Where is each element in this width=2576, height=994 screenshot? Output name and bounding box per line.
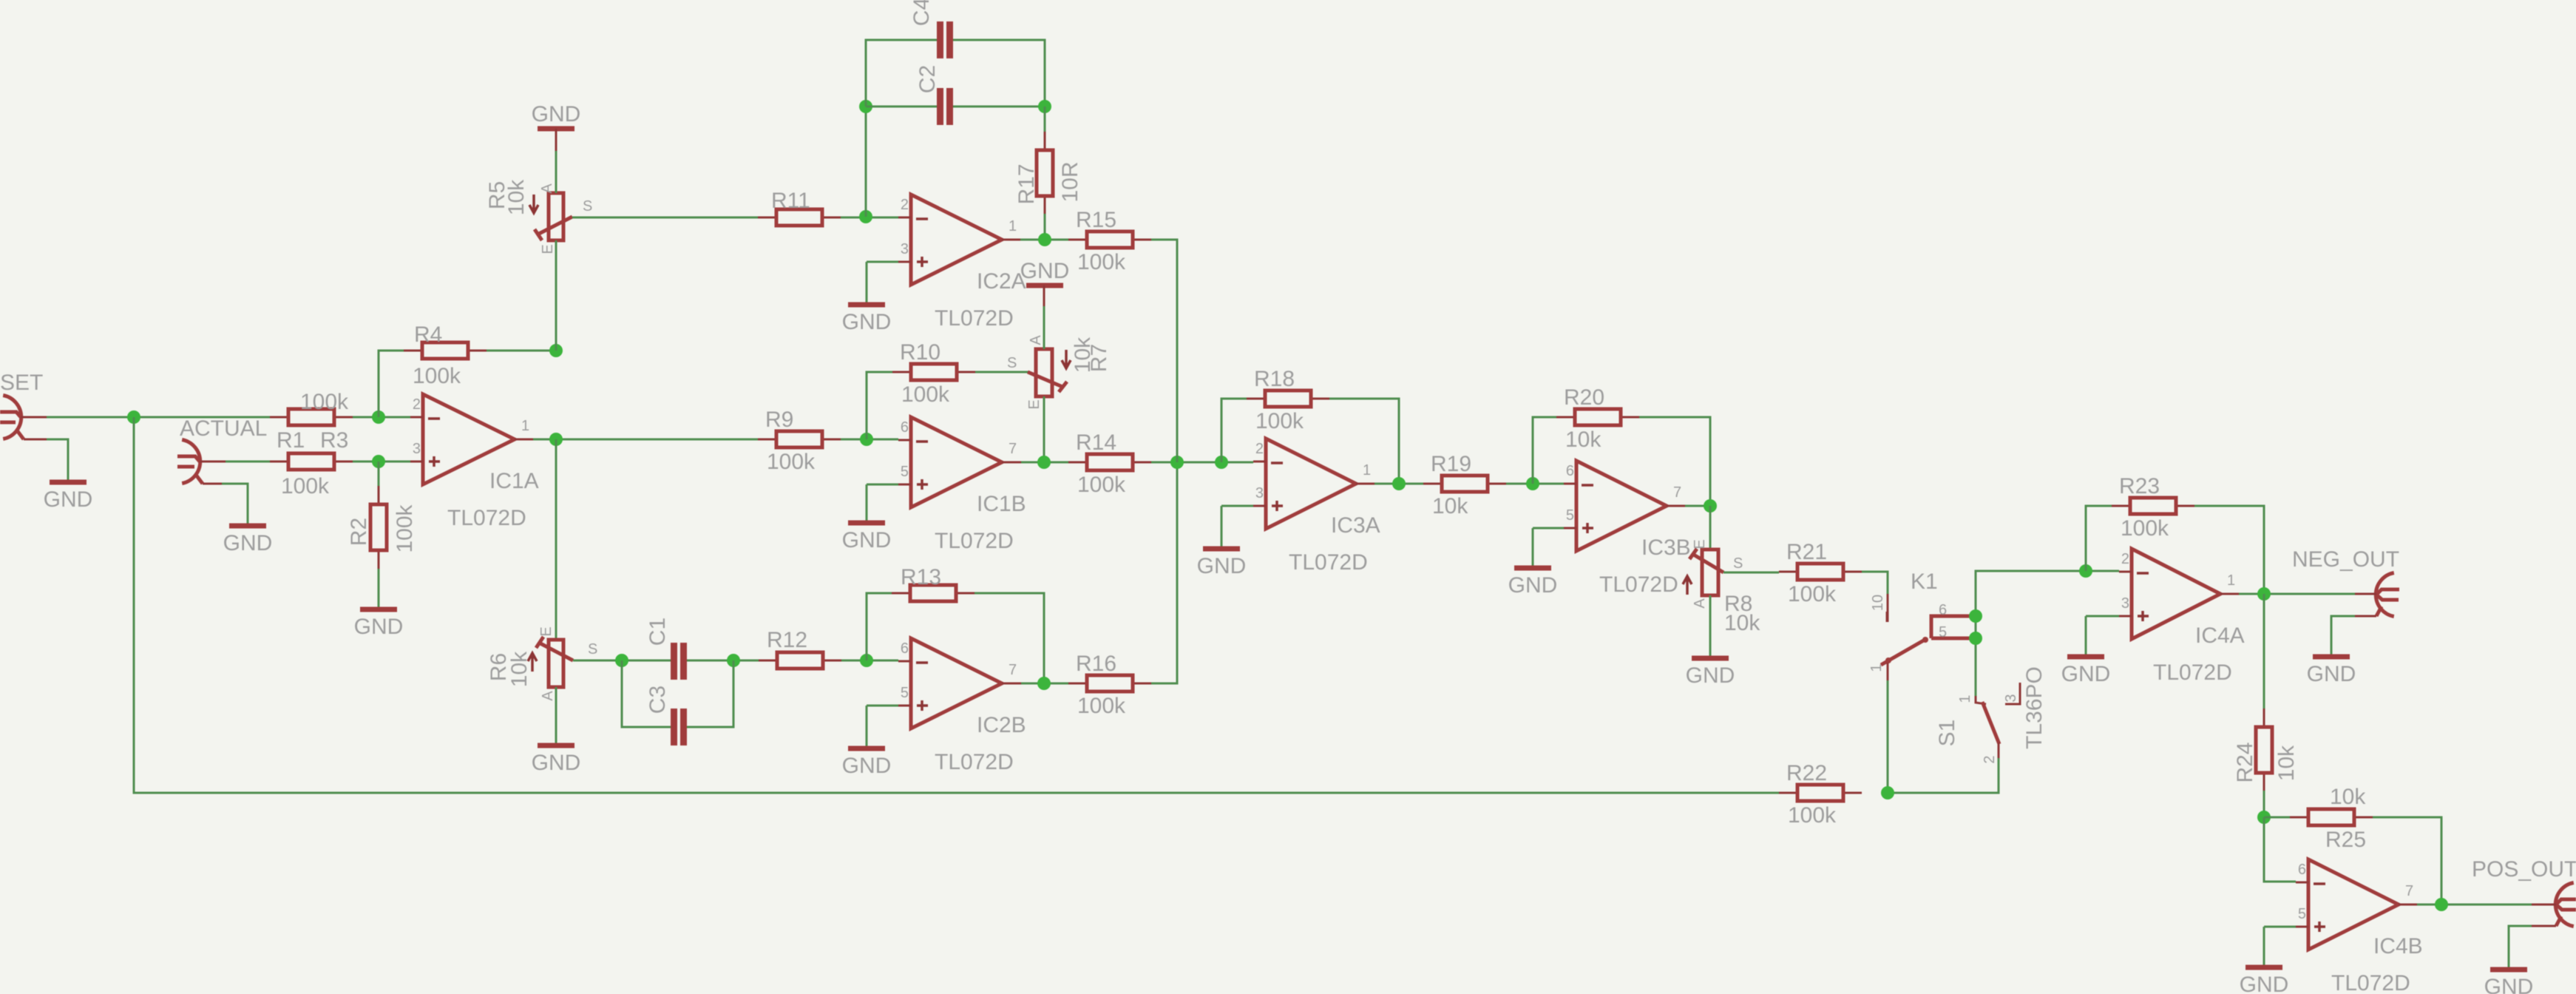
potentiometer R6 10k bbox=[487, 626, 597, 700]
junction C1/C3 right node bbox=[727, 654, 740, 667]
svg-text:100k: 100k bbox=[393, 504, 417, 552]
wire R6 wiper to C1 bbox=[573, 660, 671, 662]
resistor R10 bbox=[892, 340, 975, 407]
wire ACTUAL shield to ground bbox=[222, 484, 248, 524]
wire POS_OUT shield to ground bbox=[2509, 926, 2532, 968]
wire C2 left bbox=[866, 106, 937, 108]
svg-text:C1: C1 bbox=[645, 618, 670, 646]
svg-text:10k: 10k bbox=[507, 651, 532, 687]
svg-text:R4: R4 bbox=[414, 322, 442, 347]
svg-text:100k: 100k bbox=[1788, 803, 1837, 828]
wire R4 right to output column bbox=[487, 350, 556, 352]
wire R23 left down to pin2 node bbox=[2086, 506, 2112, 571]
wire R21 to relay pin10 bbox=[1862, 572, 1888, 594]
svg-text:A: A bbox=[540, 691, 556, 701]
svg-text:GND: GND bbox=[532, 751, 581, 775]
svg-text:R12: R12 bbox=[767, 628, 807, 652]
ground GND under NEG_OUT bbox=[2307, 657, 2356, 686]
wire R6 A to ground bbox=[555, 687, 557, 744]
svg-text:10k: 10k bbox=[504, 179, 529, 215]
junction SET net branch bbox=[127, 410, 140, 424]
potentiometer R7 10k bbox=[1007, 335, 1111, 410]
svg-text:IC1B: IC1B bbox=[977, 492, 1026, 516]
junction IC1B output node bbox=[1037, 456, 1051, 469]
svg-text:NEG_OUT: NEG_OUT bbox=[2292, 547, 2399, 572]
resistor R21 bbox=[1779, 540, 1862, 606]
wire R20 left down to pin6 node bbox=[1533, 417, 1556, 484]
svg-text:R22: R22 bbox=[1786, 761, 1827, 785]
svg-text:TL072D: TL072D bbox=[1289, 550, 1368, 575]
svg-text:10k: 10k bbox=[2330, 785, 2366, 809]
wire node to R25 bbox=[2264, 816, 2290, 819]
svg-text:GND: GND bbox=[842, 528, 892, 552]
svg-text:GND: GND bbox=[44, 487, 93, 512]
wire R13 left down to pin6 node bbox=[867, 593, 892, 660]
svg-text:K1: K1 bbox=[1911, 569, 1938, 594]
wire C4 to right column bbox=[953, 40, 1045, 106]
ground GND under ACTUAL bbox=[223, 526, 273, 555]
svg-text:A: A bbox=[539, 183, 555, 194]
capacitor C1 bbox=[645, 618, 687, 680]
svg-text:3: 3 bbox=[2003, 694, 2019, 702]
svg-text:100k: 100k bbox=[767, 450, 816, 474]
wire R20 right down to IC3B output bbox=[1639, 417, 1710, 506]
svg-text:2: 2 bbox=[901, 197, 909, 213]
svg-text:TL072D: TL072D bbox=[2153, 660, 2232, 685]
wire GND to R5 A bbox=[555, 151, 557, 193]
wire IC3A pin3 ground drop bbox=[1221, 506, 1223, 547]
svg-text:100k: 100k bbox=[1255, 409, 1304, 433]
svg-text:10: 10 bbox=[1870, 595, 1886, 611]
svg-text:1: 1 bbox=[521, 418, 529, 434]
svg-text:100k: 100k bbox=[1077, 694, 1126, 718]
svg-text:3: 3 bbox=[1255, 485, 1264, 501]
svg-text:TL36PO: TL36PO bbox=[2022, 666, 2047, 749]
svg-text:100k: 100k bbox=[901, 382, 950, 407]
junction IC2A output node bbox=[1038, 233, 1051, 246]
wire S1 pin2 down to R22 node bbox=[1888, 758, 1999, 793]
svg-text:R3: R3 bbox=[320, 428, 348, 453]
wire node down to IC4B pin6 bbox=[2264, 817, 2296, 882]
wire IC4B out to POS_OUT bbox=[2417, 904, 2532, 906]
svg-text:A: A bbox=[1692, 598, 1708, 609]
svg-text:E: E bbox=[1692, 539, 1708, 549]
junction C2 left node bbox=[859, 100, 872, 113]
svg-text:6: 6 bbox=[2298, 862, 2306, 878]
wire IC4A pin3 to ground bbox=[2086, 615, 2119, 618]
svg-text:A: A bbox=[1028, 335, 1044, 345]
resistor R3 bbox=[270, 409, 353, 453]
svg-text:GND: GND bbox=[1020, 259, 1070, 283]
resistor R17 bbox=[1014, 132, 1082, 214]
svg-text:7: 7 bbox=[1009, 441, 1017, 457]
svg-text:5: 5 bbox=[1566, 507, 1574, 524]
op-amp IC1B bbox=[898, 417, 1026, 553]
svg-text:IC4B: IC4B bbox=[2373, 934, 2423, 958]
wire IC2B pin5 ground drop bbox=[866, 706, 868, 747]
resistor R13 bbox=[892, 565, 975, 601]
connector SET bbox=[0, 396, 47, 440]
wire R18 left down to pin2 node bbox=[1221, 399, 1247, 462]
svg-text:GND: GND bbox=[842, 310, 892, 334]
svg-text:6: 6 bbox=[1939, 602, 1947, 618]
wire R10 left down to pin6 node bbox=[867, 372, 892, 439]
wire relay pins up to IC4A pin2 net bbox=[1976, 571, 2086, 696]
svg-text:2: 2 bbox=[1255, 441, 1264, 457]
ground GND under IC2A bbox=[842, 305, 892, 334]
svg-text:TL072D: TL072D bbox=[1599, 572, 1678, 597]
svg-text:R23: R23 bbox=[2119, 474, 2160, 498]
junction IC4B output node bbox=[2435, 898, 2448, 911]
op-amp IC2B bbox=[898, 638, 1026, 774]
resistor R22 bbox=[1779, 761, 1862, 828]
wire IC2B out to R16 bbox=[1021, 683, 1068, 685]
svg-text:R24: R24 bbox=[2233, 742, 2257, 782]
wire R16 up to summing node bbox=[1151, 462, 1177, 683]
resistor R20 bbox=[1556, 385, 1639, 452]
svg-text:100k: 100k bbox=[281, 474, 330, 498]
wire SET net to R3 bbox=[47, 416, 271, 419]
resistor R11 bbox=[758, 189, 841, 226]
wire pin2 node up to C2 bbox=[865, 106, 867, 217]
wire R11 to IC2A pin2 bbox=[841, 217, 898, 219]
wire R13 right down to IC2B output bbox=[975, 593, 1044, 683]
svg-text:R10: R10 bbox=[900, 340, 940, 365]
wire IC1B pin5 to ground bbox=[867, 484, 898, 486]
svg-text:10k: 10k bbox=[1724, 611, 1760, 635]
wire R15 down to summing node bbox=[1151, 240, 1177, 462]
wire R12 to IC2B pin6 bbox=[841, 660, 898, 662]
junction relay pin6 bbox=[1969, 609, 1982, 623]
svg-text:10k: 10k bbox=[2274, 745, 2299, 781]
junction P/I/D summing node bbox=[1170, 456, 1184, 469]
wire R5 wiper to R11 bbox=[572, 217, 758, 219]
svg-text:1: 1 bbox=[1868, 663, 1885, 672]
svg-text:IC4A: IC4A bbox=[2195, 623, 2245, 648]
ground GND under R2 bbox=[354, 609, 404, 639]
junction IC2A pin2 node bbox=[859, 210, 872, 223]
resistor R1 bbox=[270, 428, 353, 470]
wire IC1A output to R9 bbox=[533, 439, 758, 441]
wire R5 E down output column bbox=[555, 240, 557, 351]
wire R18 right down to IC3A output bbox=[1329, 399, 1399, 484]
op-amp IC3B bbox=[1564, 461, 1691, 597]
svg-text:TL072D: TL072D bbox=[935, 529, 1014, 553]
wire output column down to R6 bbox=[555, 439, 557, 640]
wire R3 to IC1A pin2 bbox=[353, 416, 410, 419]
ground GND under IC3A bbox=[1197, 549, 1247, 578]
junction IC3A output node bbox=[1392, 477, 1406, 490]
op-amp IC1A bbox=[410, 394, 539, 530]
junction IC1A output node bbox=[549, 433, 563, 446]
svg-text:10R: 10R bbox=[1058, 161, 1082, 202]
svg-text:5: 5 bbox=[901, 464, 909, 480]
resistor R15 bbox=[1068, 208, 1151, 274]
svg-text:S: S bbox=[1007, 355, 1017, 371]
svg-text:R19: R19 bbox=[1431, 452, 1471, 476]
svg-text:TL072D: TL072D bbox=[447, 506, 526, 530]
svg-text:C3: C3 bbox=[645, 686, 670, 714]
svg-text:R1: R1 bbox=[277, 428, 305, 453]
svg-text:1: 1 bbox=[1957, 694, 1973, 703]
relay contact K1 bbox=[1868, 569, 1973, 680]
resistor R18 bbox=[1247, 367, 1329, 433]
svg-text:3: 3 bbox=[901, 241, 909, 257]
wire IC4B pin5 to ground bbox=[2264, 926, 2296, 928]
resistor R25 bbox=[2290, 809, 2373, 852]
connector POS_OUT bbox=[2532, 883, 2576, 927]
op-amp IC4B bbox=[2296, 859, 2423, 994]
ground GND under IC2B bbox=[842, 748, 892, 778]
svg-text:100k: 100k bbox=[1077, 473, 1126, 497]
svg-text:1: 1 bbox=[2227, 572, 2235, 589]
svg-text:E: E bbox=[538, 626, 555, 636]
svg-text:100k: 100k bbox=[2121, 516, 2169, 541]
svg-text:6: 6 bbox=[1566, 463, 1574, 479]
junction IC2B output node bbox=[1037, 677, 1051, 690]
junction IC1B pin6 node bbox=[860, 433, 873, 446]
junction R1/R2 node bbox=[372, 455, 385, 468]
resistor R9 bbox=[758, 408, 841, 474]
wire IC2A pin3 ground drop bbox=[866, 262, 868, 303]
svg-text:2: 2 bbox=[413, 396, 421, 413]
wire IC4A output down to R24 bbox=[2263, 594, 2265, 710]
resistor R19 bbox=[1423, 452, 1506, 518]
wire IC3B pin5 ground drop bbox=[1532, 528, 1534, 567]
ground GND under SET bbox=[44, 482, 93, 512]
svg-text:IC2A: IC2A bbox=[977, 269, 1026, 294]
op-amp IC2A bbox=[898, 195, 1026, 331]
wire IC3A pin3 to ground bbox=[1221, 505, 1253, 507]
wire R8 wiper to R21 bbox=[1723, 572, 1779, 574]
svg-text:10k: 10k bbox=[1565, 427, 1601, 452]
svg-text:R15: R15 bbox=[1076, 208, 1116, 232]
junction IC3A pin2 node bbox=[1215, 456, 1228, 469]
svg-text:S: S bbox=[583, 198, 592, 214]
wire R2 to ground bbox=[378, 569, 380, 608]
junction relay pin5 bbox=[1969, 632, 1982, 645]
svg-text:6: 6 bbox=[901, 419, 909, 436]
svg-text:100k: 100k bbox=[1077, 250, 1126, 274]
wire R8 A to ground bbox=[1709, 595, 1712, 657]
resistor R24 bbox=[2233, 709, 2299, 791]
svg-text:ACTUAL: ACTUAL bbox=[180, 416, 267, 441]
wire branch down to C3 bbox=[622, 660, 671, 727]
wire output down to R8 bbox=[1709, 506, 1712, 550]
junction IC3B output node bbox=[1704, 499, 1717, 513]
ground GND under IC3B bbox=[1508, 568, 1558, 598]
resistor R23 bbox=[2112, 474, 2194, 541]
junction R3/R4 node bbox=[372, 410, 385, 424]
wire relay common down to R22 node bbox=[1887, 680, 1889, 793]
svg-text:R16: R16 bbox=[1076, 652, 1116, 676]
junction R4/output column bbox=[549, 344, 563, 357]
svg-text:GND: GND bbox=[2240, 973, 2289, 994]
svg-text:1: 1 bbox=[1363, 462, 1371, 479]
ground GND under R8 bbox=[1686, 658, 1735, 688]
switch S1 TL36PO bbox=[1935, 666, 2047, 763]
wire R1 to IC1A pin3 bbox=[353, 461, 410, 463]
svg-text:R13: R13 bbox=[901, 565, 941, 589]
wire GND to R7 A bbox=[1043, 306, 1045, 349]
wire R23 right down to IC4A output bbox=[2194, 506, 2264, 594]
wire C3 up to node bbox=[687, 660, 733, 727]
svg-text:2: 2 bbox=[2121, 551, 2129, 567]
wire R4 left down to pin2 node bbox=[379, 351, 404, 417]
svg-text:100k: 100k bbox=[300, 390, 349, 414]
svg-text:R25: R25 bbox=[2325, 828, 2366, 852]
junction R23 left node bbox=[2079, 564, 2092, 578]
svg-text:10k: 10k bbox=[1432, 494, 1468, 518]
capacitor C2 bbox=[915, 65, 953, 125]
resistor R4 bbox=[404, 322, 487, 388]
wire R9 to IC1B pin6 bbox=[841, 439, 898, 441]
svg-text:GND: GND bbox=[223, 531, 273, 555]
ground GND above R7 bbox=[1020, 259, 1070, 285]
ground GND above R5 bbox=[532, 102, 581, 129]
svg-text:IC3B: IC3B bbox=[1641, 535, 1691, 560]
ground GND under IC4A bbox=[2061, 657, 2111, 686]
ground GND under IC4B bbox=[2240, 967, 2289, 994]
wire R10 to R7 wiper bbox=[975, 371, 1029, 373]
svg-text:R18: R18 bbox=[1254, 367, 1295, 391]
svg-text:C4: C4 bbox=[909, 0, 934, 26]
capacitor C3 bbox=[645, 686, 687, 745]
svg-text:100k: 100k bbox=[413, 364, 461, 388]
svg-text:E: E bbox=[540, 244, 556, 254]
svg-text:R2: R2 bbox=[347, 518, 371, 546]
wire NEG_OUT shield to ground bbox=[2331, 616, 2355, 655]
svg-text:10k: 10k bbox=[1071, 337, 1095, 373]
svg-text:R21: R21 bbox=[1786, 540, 1827, 564]
wire IC3B out bbox=[1685, 505, 1710, 507]
wire R14 to IC3A pin2 bbox=[1151, 461, 1253, 464]
svg-text:GND: GND bbox=[842, 754, 892, 778]
svg-text:R11: R11 bbox=[771, 189, 810, 213]
svg-text:100k: 100k bbox=[1788, 582, 1837, 606]
connector ACTUAL bbox=[177, 440, 226, 484]
junction R24/R25/IC4B pin6 node bbox=[2257, 811, 2271, 824]
ground GND under IC1B bbox=[842, 523, 892, 552]
svg-text:R14: R14 bbox=[1076, 430, 1116, 455]
wire R17 to IC2A output bbox=[1044, 214, 1046, 240]
svg-text:3: 3 bbox=[413, 441, 421, 457]
svg-text:TL072D: TL072D bbox=[935, 750, 1014, 774]
svg-text:5: 5 bbox=[1939, 624, 1947, 640]
svg-text:2: 2 bbox=[1982, 755, 1998, 763]
resistor R2 bbox=[347, 486, 417, 569]
resistor R14 bbox=[1068, 430, 1151, 497]
potentiometer R5 10k bbox=[485, 129, 592, 254]
op-amp IC3A bbox=[1253, 439, 1380, 575]
svg-text:TL072D: TL072D bbox=[935, 306, 1014, 331]
wire R19 to IC3B pin6 bbox=[1506, 483, 1564, 485]
wire IC4B pin5 ground drop bbox=[2263, 927, 2265, 966]
wire IC4A pin3 ground drop bbox=[2085, 616, 2087, 655]
wire down to R17 bbox=[1044, 106, 1046, 132]
svg-text:7: 7 bbox=[1009, 662, 1017, 678]
wire IC3B pin5 to ground bbox=[1533, 527, 1564, 530]
wire IC4A out to NEG_OUT bbox=[2239, 593, 2355, 595]
svg-text:GND: GND bbox=[1197, 554, 1247, 578]
junction R12/R13/IC2B node bbox=[860, 654, 873, 667]
svg-text:GND: GND bbox=[2484, 975, 2534, 994]
svg-text:GND: GND bbox=[532, 102, 581, 126]
svg-text:S: S bbox=[1733, 555, 1743, 572]
svg-text:R20: R20 bbox=[1564, 385, 1604, 410]
potentiometer R8 10k bbox=[1683, 539, 1760, 635]
svg-text:5: 5 bbox=[901, 685, 909, 701]
wire IC2B pin5 to ground bbox=[867, 705, 898, 707]
wire to IC4A pin2 bbox=[2086, 570, 2119, 572]
ground GND under R6 bbox=[532, 745, 581, 775]
svg-text:IC1A: IC1A bbox=[489, 469, 539, 493]
svg-text:POS_OUT: POS_OUT bbox=[2472, 857, 2576, 882]
svg-text:1: 1 bbox=[1009, 218, 1017, 234]
svg-text:6: 6 bbox=[901, 640, 909, 657]
svg-text:7: 7 bbox=[1673, 484, 1681, 501]
wire IC1B out to R14 bbox=[1021, 461, 1068, 464]
svg-text:IC2B: IC2B bbox=[977, 713, 1026, 737]
wire SET shield to ground bbox=[47, 439, 68, 481]
junction C2 right node bbox=[1038, 100, 1051, 113]
svg-text:SET: SET bbox=[0, 371, 43, 395]
wire R7 E to IC1B output bbox=[1043, 396, 1045, 462]
wire R25 right down to IC4B output bbox=[2373, 817, 2441, 905]
svg-text:S1: S1 bbox=[1935, 720, 1959, 747]
svg-text:E: E bbox=[1026, 399, 1043, 409]
resistor R16 bbox=[1068, 652, 1151, 718]
svg-text:GND: GND bbox=[2061, 662, 2111, 686]
op-amp IC4A bbox=[2119, 549, 2245, 685]
svg-text:GND: GND bbox=[1686, 663, 1735, 688]
wire IC2A out to R15 bbox=[1020, 239, 1068, 241]
svg-text:5: 5 bbox=[2298, 906, 2306, 922]
svg-text:7: 7 bbox=[2405, 883, 2413, 899]
wire ACTUAL net to R1 bbox=[226, 461, 271, 463]
wire pin3 node down to R2 bbox=[378, 461, 380, 486]
svg-text:IC3A: IC3A bbox=[1331, 513, 1380, 538]
wire R24 to R25 node bbox=[2263, 791, 2265, 817]
svg-text:3: 3 bbox=[2121, 595, 2129, 612]
wire SET net down and along bottom to R22 bbox=[134, 417, 1779, 793]
junction R22/S1 node bbox=[1881, 786, 1894, 799]
svg-text:GND: GND bbox=[2307, 662, 2356, 686]
junction C1/C3 left node bbox=[615, 654, 628, 667]
wire IC3A out to R19 bbox=[1375, 483, 1423, 485]
svg-text:R17: R17 bbox=[1014, 163, 1039, 204]
svg-text:TL072D: TL072D bbox=[2331, 971, 2410, 994]
connector NEG_OUT bbox=[2355, 573, 2399, 617]
svg-text:GND: GND bbox=[1508, 573, 1558, 598]
capacitor C4 bbox=[909, 0, 953, 58]
ground GND under POS_OUT bbox=[2484, 970, 2534, 994]
svg-text:S: S bbox=[588, 641, 597, 657]
resistor R12 bbox=[759, 628, 841, 669]
svg-text:C2: C2 bbox=[915, 65, 940, 93]
wire C2 right bbox=[953, 106, 1045, 108]
svg-text:R9: R9 bbox=[765, 408, 793, 432]
wire up to C4 bbox=[866, 40, 937, 106]
wire C1 to R12 bbox=[687, 660, 759, 662]
junction IC3B pin6 node bbox=[1526, 477, 1539, 490]
wire IC1B pin5 ground drop bbox=[866, 484, 868, 521]
wire IC2A pin3 to ground bbox=[867, 261, 898, 263]
junction IC4A output node bbox=[2257, 587, 2271, 601]
svg-text:GND: GND bbox=[354, 615, 404, 639]
